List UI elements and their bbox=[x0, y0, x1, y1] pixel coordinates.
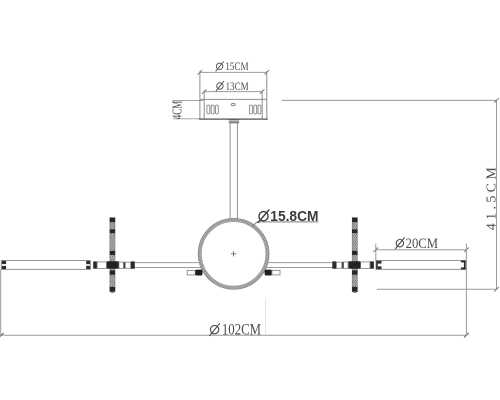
canopy outer left edge / ⌀15 extension bbox=[199, 71, 201, 119]
label ⌀102CM phi symbol bbox=[209, 323, 220, 336]
svg-text:4CM: 4CM bbox=[169, 101, 184, 120]
canopy inner right edge / ⌀13 extension bbox=[261, 90, 263, 119]
left connector dark block G bbox=[131, 261, 135, 268]
left vertical tube faint bands bbox=[110, 238, 115, 285]
svg-text:13CM: 13CM bbox=[226, 81, 249, 93]
dimension ⌀20CM left extension line bbox=[375, 244, 377, 261]
right horizontal tube left end cap marks bbox=[376, 261, 381, 270]
left vertical tube bottom foot bbox=[111, 292, 114, 293]
right connector dark block A bbox=[370, 261, 374, 268]
dimension ⌀13CM dim line bbox=[204, 91, 262, 93]
dimension ⌀13CM end ticks bbox=[202, 89, 265, 94]
hub center cross bbox=[231, 251, 236, 256]
41.5CM end ticks bbox=[494, 98, 499, 292]
left horizontal tube body bbox=[1, 261, 90, 270]
label ⌀15CM phi symbol bbox=[216, 61, 224, 71]
⌀15.8CM leader diagonal bbox=[252, 222, 257, 227]
left dark spacer E bbox=[124, 262, 126, 269]
canopy bottom edge bbox=[199, 118, 268, 120]
canopy vent slots left group bbox=[207, 105, 218, 114]
dimension ⌀20CM end ticks bbox=[374, 248, 469, 253]
right clamp tail bbox=[272, 270, 280, 275]
canopy inner left edge / ⌀13 extension bbox=[203, 90, 205, 119]
⌀102CM / ⌀20CM shared right extension line bbox=[465, 244, 467, 336]
dimension ⌀102CM dim line bbox=[1, 334, 467, 336]
svg-text:15CM: 15CM bbox=[225, 61, 249, 73]
right horizontal tube body bbox=[376, 261, 466, 270]
right arm tube top line bbox=[267, 262, 333, 264]
stem collar below canopy bbox=[229, 119, 239, 123]
⌀15.8CM leader underline bbox=[257, 221, 319, 223]
41.5CM vertical dimension line bbox=[496, 100, 498, 289]
canopy top edge bbox=[200, 98, 267, 100]
41.5CM top extension line bbox=[282, 99, 497, 101]
left clamp dark block bbox=[195, 270, 202, 276]
left socket B bbox=[97, 262, 106, 269]
right socket B bbox=[361, 262, 370, 269]
left vertical tube body bbox=[110, 218, 115, 292]
left connector dark block A bbox=[93, 261, 97, 268]
left horizontal tube left end cap marks bbox=[2, 261, 6, 269]
right crossing clamp C bbox=[348, 261, 360, 269]
hub ring outer outline bbox=[198, 218, 269, 289]
hub ring hatched annulus bbox=[198, 218, 269, 289]
left socket F bbox=[125, 262, 131, 268]
dimension ⌀15CM end ticks bbox=[198, 70, 270, 75]
dimension ⌀20CM dim line bbox=[376, 249, 467, 251]
label ⌀15.8CM phi symbol bbox=[258, 210, 270, 223]
41.5CM bottom extension line bbox=[377, 288, 497, 290]
dimension ⌀15CM dim line bbox=[200, 71, 267, 73]
dimension 4CM bottom extension line bbox=[173, 118, 199, 120]
left arm tube bottom line bbox=[135, 267, 201, 269]
left clamp tail bbox=[187, 270, 195, 275]
right vertical tube bottom foot bbox=[353, 292, 356, 293]
svg-text:102CM: 102CM bbox=[222, 322, 261, 339]
⌀102CM left extension line bbox=[0, 270, 2, 336]
left crossing clamp C bbox=[107, 261, 119, 269]
canopy outer right edge / ⌀15 extension bbox=[266, 71, 268, 119]
right socket D bbox=[344, 262, 349, 268]
faint artifact line right of circle bbox=[265, 299, 267, 335]
svg-text:41.5CM: 41.5CM bbox=[484, 167, 499, 231]
right arm tube bottom line bbox=[267, 267, 333, 269]
svg-text:20CM: 20CM bbox=[406, 236, 439, 252]
dimension ⌀102CM end ticks bbox=[0, 333, 469, 338]
canopy center screw oval bbox=[231, 104, 235, 106]
dimension 4CM top extension line bbox=[172, 99, 204, 101]
left vertical tube dark bands bbox=[110, 218, 115, 292]
right horizontal tube right end cap bracket bbox=[461, 261, 466, 270]
stem right line bbox=[236, 123, 238, 220]
label ⌀20CM phi symbol bbox=[395, 238, 404, 250]
left arm tube top line bbox=[135, 262, 201, 264]
right vertical tube body bbox=[352, 218, 357, 292]
hub ring inner outline bbox=[201, 222, 266, 286]
right socket F bbox=[336, 262, 342, 268]
stem left line bbox=[229, 123, 231, 220]
right connector dark block G bbox=[332, 261, 336, 268]
right vertical tube faint bands bbox=[352, 238, 357, 285]
right dark spacer E bbox=[342, 262, 344, 269]
svg-text:15.8CM: 15.8CM bbox=[270, 208, 318, 225]
right vertical tube dark bands bbox=[352, 218, 357, 292]
label ⌀13CM phi symbol bbox=[216, 81, 224, 91]
left horizontal tube right end cap marks bbox=[86, 261, 90, 269]
left socket D bbox=[119, 262, 124, 268]
right clamp dark block bbox=[265, 270, 272, 276]
canopy vent slots right group bbox=[250, 105, 261, 114]
